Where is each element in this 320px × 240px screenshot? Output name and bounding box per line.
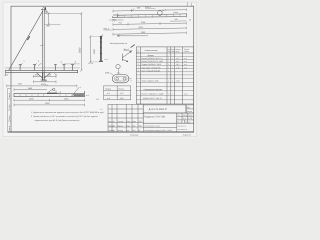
svg-text:2: 2 [138,60,139,63]
svg-text:Болт стяжной М20х80: Болт стяжной М20х80 [142,69,160,72]
svg-text:5.81: 5.81 [132,129,135,132]
svg-text:Хомут подвесн. М20: Хомут подвесн. М20 [142,80,159,83]
svg-text:N докум.: N докум. [117,120,124,123]
svg-text:2. Прочие элементы на N17 уста: 2. Прочие элементы на N17 установить сог… [31,115,99,118]
svg-text:1: 1 [168,60,169,63]
hole circle on beam [118,14,181,18]
post mid tick [100,47,102,49]
svg-text:тс-1: тс-1 [107,92,110,95]
svg-text:Дата: Дата [132,120,136,123]
svg-text:Марка: Марка [105,87,112,90]
svg-text:ин: ин [113,130,115,132]
svg-text:6: 6 [138,80,139,83]
small vertical dimension 500 [48,13,50,24]
svg-text:Масса: Масса [119,87,126,90]
svg-text:1:10: 1:10 [188,117,192,120]
stub posts on base [19,65,74,71]
svg-text:Лст: Лст [112,120,115,123]
svg-text:Подвеска ТУЛ-75М: Подвеска ТУЛ-75М [144,116,165,119]
svg-text:Балка 75х50х5 N2 L-2960: Балка 75х50х5 N2 L-2960 [142,60,163,63]
svg-text:ов: ов [113,125,115,127]
dim 600 right [45,75,56,77]
svg-text:1500: 1500 [18,83,22,86]
right narrow column [186,105,194,113]
svg-text:5: 5 [138,69,139,72]
dim 600 left [33,75,42,77]
svg-text:1: 1 [172,57,173,60]
svg-text:М16: М16 [117,72,120,75]
svg-text:7: 7 [138,92,139,95]
designation cell [143,105,186,113]
svg-text:45: 45 [189,18,191,21]
svg-text:2970: 2970 [139,26,143,29]
left end support [112,20,116,22]
mast foot plate [41,79,47,81]
post height dim [89,36,91,62]
svg-text:2400: 2400 [141,21,145,24]
svg-text:L=750: L=750 [88,62,93,65]
svg-text:Скопировал повторно 1981 г. ЛО: Скопировал повторно 1981 г. ЛОЭП [144,129,173,132]
svg-text:Иванов: Иванов [117,124,123,127]
svg-text:тс-4: тс-4 [104,58,107,61]
base beam double line [6,70,78,73]
post body [100,36,101,60]
spec table header text [137,48,189,54]
svg-text:НК: НК [138,129,140,132]
svg-text:3: 3 [138,63,139,66]
left attachment strip [8,89,11,133]
mast lower segment emphasis [42,73,44,80]
svg-text:28,1: 28,1 [176,63,179,66]
spec table body text [131,45,135,48]
svg-text:Инв.N: Инв.N [8,92,11,98]
svg-text:тс-3: тс-3 [184,63,187,66]
svg-text:тс-2: тс-2 [86,94,89,97]
svg-text:Подп: Подп [126,120,130,123]
callout 4 [73,63,75,66]
svg-text:6,35: 6,35 [176,80,179,83]
tall dimension 5000 [80,13,82,70]
svg-text:2: 2 [168,92,169,95]
beam segment ticks [20,94,72,97]
svg-text:6,35: 6,35 [176,66,179,69]
svg-text:Узел крепления оп.: Узел крепления оп. [110,42,128,45]
svg-text:Петров: Петров [117,129,123,132]
dim row 1 [14,99,85,101]
svg-text:Согласовано гл.инж.: Согласовано гл.инж. [144,124,161,127]
svg-text:1:2: 1:2 [96,98,99,101]
svg-text:Д-IV-2 N 4562-Р: Д-IV-2 N 4562-Р [149,108,168,111]
svg-text:1: 1 [191,3,193,7]
svg-text:пп: пп [137,52,139,54]
svg-text:45,2: 45,2 [120,97,124,100]
post foot [99,61,103,62]
end leader [72,87,80,96]
page number box top right [186,2,188,6]
brace label [27,36,29,40]
svg-text:5.81: 5.81 [132,124,135,127]
svg-text:Стандартные изделия: Стандартные изделия [144,88,163,91]
svg-text:8 отв: 8 отв [174,11,178,14]
svg-text:ед,кг: ед,кг [176,51,180,53]
svg-text:тс-2: тс-2 [107,97,110,100]
svg-text:на1: на1 [168,50,171,53]
section circle [116,64,120,68]
svg-text:Болты с гайками и 2 шайб: Болты с гайками и 2 шайб [142,92,164,95]
dim 6000 overall [7,85,77,87]
dim row 3 [113,33,186,34]
diagonal brace [9,11,43,70]
callout 3 [62,63,64,66]
mast (vertical post) [41,10,46,80]
mast top bracket [44,11,47,13]
svg-text:4: 4 [138,66,139,69]
top dim line [113,10,186,11]
svg-text:Подп.: Подп. [8,104,11,109]
dim 400 small right [170,20,186,22]
tie line on right stubs [64,63,80,65]
extension line top [44,12,81,14]
left support hatch [5,73,9,76]
svg-text:1: 1 [172,80,173,83]
dim row 2 [14,104,85,106]
svg-text:тс-1 (тс-2) констр.: тс-1 (тс-2) констр. [109,19,124,22]
svg-text:1: 1 [168,63,169,66]
svg-text:Копировал: Копировал [130,133,138,136]
svg-text:Узел соед. 75х75х6 N5: Узел соед. 75х75х6 N5 [142,66,161,69]
svg-text:915: 915 [119,22,122,25]
bottom frame thick line [8,131,194,133]
svg-text:Детали: Детали [148,54,154,57]
svg-text:т.2: т.2 [100,108,102,111]
dim row 1 [113,23,186,24]
dark end section [74,94,85,96]
svg-text:41,2: 41,2 [176,57,179,60]
callout 2 [35,63,37,66]
svg-text:отделения инст. для ВЛ 0,4 кВ: отделения инст. для ВЛ 0,4 кВ (были согл… [35,119,81,122]
svg-text:4: 4 [172,66,173,69]
svg-text:М20х60 ГОСТ 7798-70: М20х60 ГОСТ 7798-70 [143,97,162,100]
svg-text:Подкос 50х50х5 L-5810: Подкос 50х50х5 L-5810 [142,63,161,66]
extension line mid [44,23,60,25]
svg-text:400: 400 [174,18,177,21]
svg-text:2 шт: 2 шт [184,92,188,95]
name cell [143,113,177,123]
paper sheet [0,0,200,139]
post top flag [102,34,104,36]
list row [143,120,194,132]
svg-text:Формат А3: Формат А3 [183,134,192,137]
svg-text:тс-1: тс-1 [184,57,187,60]
svg-text:Инв.N: Инв.N [8,125,11,131]
lit massa masshtab grid [177,113,194,123]
clamp oval [112,75,129,83]
svg-text:Балка 70х50х4,5 N10 L-3: Балка 70х50х4,5 N10 L-3 [142,57,163,60]
dim row 2 [113,28,186,29]
drawing frame [11,6,194,132]
base rail thin upper line [5,67,80,69]
top dim [14,89,47,91]
svg-text:Утв: Утв [126,129,129,132]
svg-text:41,2: 41,2 [120,92,124,95]
svg-text:1: 1 [138,57,139,60]
svg-text:3060: 3060 [141,31,145,34]
svg-text:Наименование: Наименование [145,49,158,52]
svg-text:1: 1 [168,80,169,83]
svg-text:1: 1 [168,57,169,60]
svg-text:тс-4: тс-4 [184,66,187,69]
svg-text:1: 1 [168,66,169,69]
dim 1200 [33,81,56,83]
svg-text:Взам.: Взам. [8,115,11,120]
svg-text:5000: 5000 [79,47,82,53]
svg-text:45,2: 45,2 [176,60,179,63]
svg-text:чание: чание [184,51,189,53]
svg-text:1: 1 [168,69,169,72]
svg-text:тс-3: тс-3 [40,44,43,47]
svg-text:тс-2: тс-2 [184,60,187,63]
mast top marks [42,6,44,9]
callout 1 [20,63,22,66]
svg-text:тс-1: тс-1 [45,84,48,87]
beam body [14,91,85,97]
svg-text:2: 2 [60,91,61,94]
left grid [108,104,143,132]
svg-text:1. Допускается изготовление по: 1. Допускается изготовление подкоса стое… [31,111,105,114]
svg-text:2: 2 [172,92,173,95]
mast foot gussets [37,73,43,79]
beam body [113,13,187,18]
svg-text:3000: 3000 [93,48,96,54]
